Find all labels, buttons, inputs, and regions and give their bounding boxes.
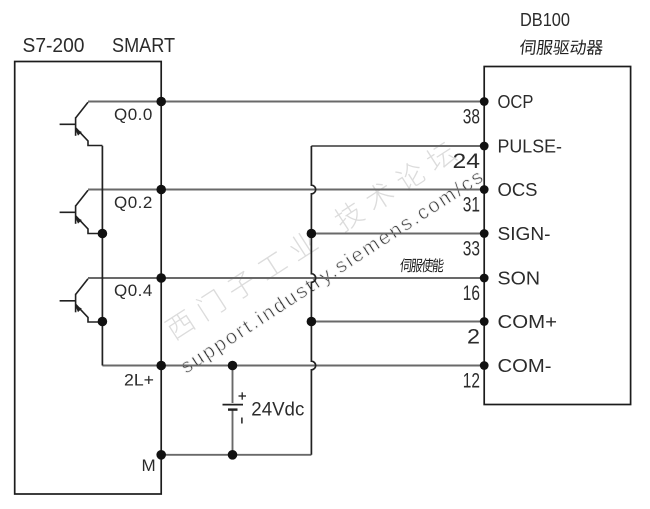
svg-text:Q0.2: Q0.2 <box>114 193 153 212</box>
svg-text:OCS: OCS <box>498 180 538 200</box>
watermark line 1: 西门子工业 技术论坛 <box>163 139 458 342</box>
arrow Q0.2 emitter <box>75 217 82 224</box>
wire PULSE- <box>311 145 484 147</box>
PLC box S7-200 SMART <box>15 62 162 495</box>
pin dots <box>480 97 489 106</box>
svg-text:31: 31 <box>463 194 480 217</box>
wire COM+ <box>311 321 484 323</box>
svg-text:COM-: COM- <box>498 356 552 376</box>
svg-text:OCP: OCP <box>498 92 534 112</box>
battery top lead <box>232 366 234 404</box>
svg-text:2L+: 2L+ <box>124 372 154 390</box>
svg-text:Q0.0: Q0.0 <box>114 105 153 124</box>
svg-text:PULSE-: PULSE- <box>498 137 563 157</box>
battery bottom lead <box>232 410 234 455</box>
svg-text:33: 33 <box>463 238 480 261</box>
battery plus sign <box>239 392 247 399</box>
servo drive box DB100 <box>484 67 630 405</box>
svg-text:SON: SON <box>498 269 541 289</box>
svg-text:24Vdc: 24Vdc <box>251 398 304 420</box>
svg-text:S7-200: S7-200 <box>23 35 85 57</box>
wire Q0.2 to OCS <box>88 189 484 191</box>
battery negative plate <box>228 408 238 410</box>
svg-text:38: 38 <box>463 106 480 129</box>
svg-text:COM+: COM+ <box>498 312 558 332</box>
wire 2L+ to COM- <box>102 365 484 367</box>
wire Q0.0 to OCP <box>88 101 484 103</box>
svg-text:16: 16 <box>463 282 480 305</box>
battery 24Vdc positive plate <box>223 404 244 406</box>
svg-text:DB100: DB100 <box>520 10 570 30</box>
label 伺服使能 <box>400 258 445 272</box>
svg-text:M: M <box>142 456 156 475</box>
svg-text:Q0.4: Q0.4 <box>114 281 153 300</box>
svg-text:2: 2 <box>467 326 480 349</box>
label 伺服驱动器 <box>519 39 603 54</box>
watermark line 2: support.industry.siemens.com/cs <box>177 165 489 378</box>
wire Q0.4 to SON <box>88 277 484 279</box>
junction dots <box>156 97 166 107</box>
svg-text:24: 24 <box>453 150 481 173</box>
svg-text:12: 12 <box>463 370 480 393</box>
wire M <box>161 454 311 456</box>
arrow Q0.4 emitter <box>75 305 82 312</box>
vertical return wire with hops <box>311 146 315 455</box>
arrow Q0.0 emitter <box>75 129 82 136</box>
wire SIGN- <box>311 233 484 235</box>
emitter bus <box>101 146 103 366</box>
svg-text:SMART: SMART <box>112 35 175 57</box>
transistor Q0.4 <box>60 279 103 322</box>
svg-text:SIGN-: SIGN- <box>498 224 551 244</box>
transistor Q0.2 <box>60 190 103 233</box>
transistor Q0.0 <box>60 102 103 145</box>
battery minus tick <box>241 418 243 424</box>
